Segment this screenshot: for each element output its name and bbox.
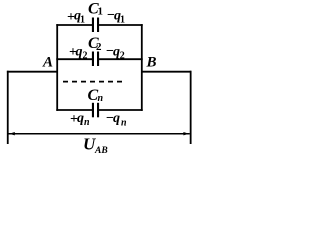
svg-text:1: 1 <box>80 15 85 26</box>
label U_AB <box>83 135 108 156</box>
wire: left rail <box>56 24 58 111</box>
wire: Cn branch left <box>56 109 93 111</box>
svg-text:1: 1 <box>98 6 104 18</box>
wire: A lead <box>7 71 57 73</box>
svg-text:1: 1 <box>120 15 125 26</box>
wire: Cn branch right <box>98 109 143 111</box>
wire: C2 branch left <box>56 58 93 60</box>
label C2 <box>88 35 102 53</box>
svg-text:2: 2 <box>120 51 125 62</box>
wire: right terminal <box>190 71 192 144</box>
svg-text:q: q <box>77 111 84 126</box>
arrowhead right <box>183 132 189 135</box>
dimension line U_AB <box>8 133 189 135</box>
label -qn <box>106 111 127 129</box>
arrowhead left <box>9 132 15 135</box>
capacitor Cn <box>92 103 99 118</box>
svg-text:B: B <box>146 54 157 70</box>
svg-text:n: n <box>121 118 127 129</box>
svg-text:q: q <box>113 111 120 126</box>
wire: right rail <box>141 24 143 111</box>
label -q2 <box>106 44 125 62</box>
label +q1 <box>67 8 85 25</box>
label -q1 <box>107 8 125 26</box>
svg-text:AB: AB <box>94 146 108 156</box>
svg-text:2: 2 <box>96 41 102 53</box>
wire: C1 branch left <box>56 24 93 26</box>
label Cn <box>88 87 104 104</box>
capacitor C1 <box>92 18 99 33</box>
svg-text:q: q <box>76 45 83 60</box>
dashed line (ellipsis of more branches) <box>63 81 122 83</box>
label +q2 <box>69 45 88 62</box>
capacitor C2 <box>92 52 99 67</box>
svg-text:n: n <box>98 93 104 104</box>
svg-text:2: 2 <box>83 51 88 62</box>
wire: C2 branch right <box>98 58 143 60</box>
svg-text:A: A <box>42 54 53 70</box>
label +qn <box>70 111 90 128</box>
wire: B lead <box>142 71 192 73</box>
label C1 <box>88 1 103 18</box>
wire: left terminal <box>7 71 9 144</box>
svg-text:n: n <box>84 117 90 128</box>
wire: C1 branch right <box>98 24 143 26</box>
